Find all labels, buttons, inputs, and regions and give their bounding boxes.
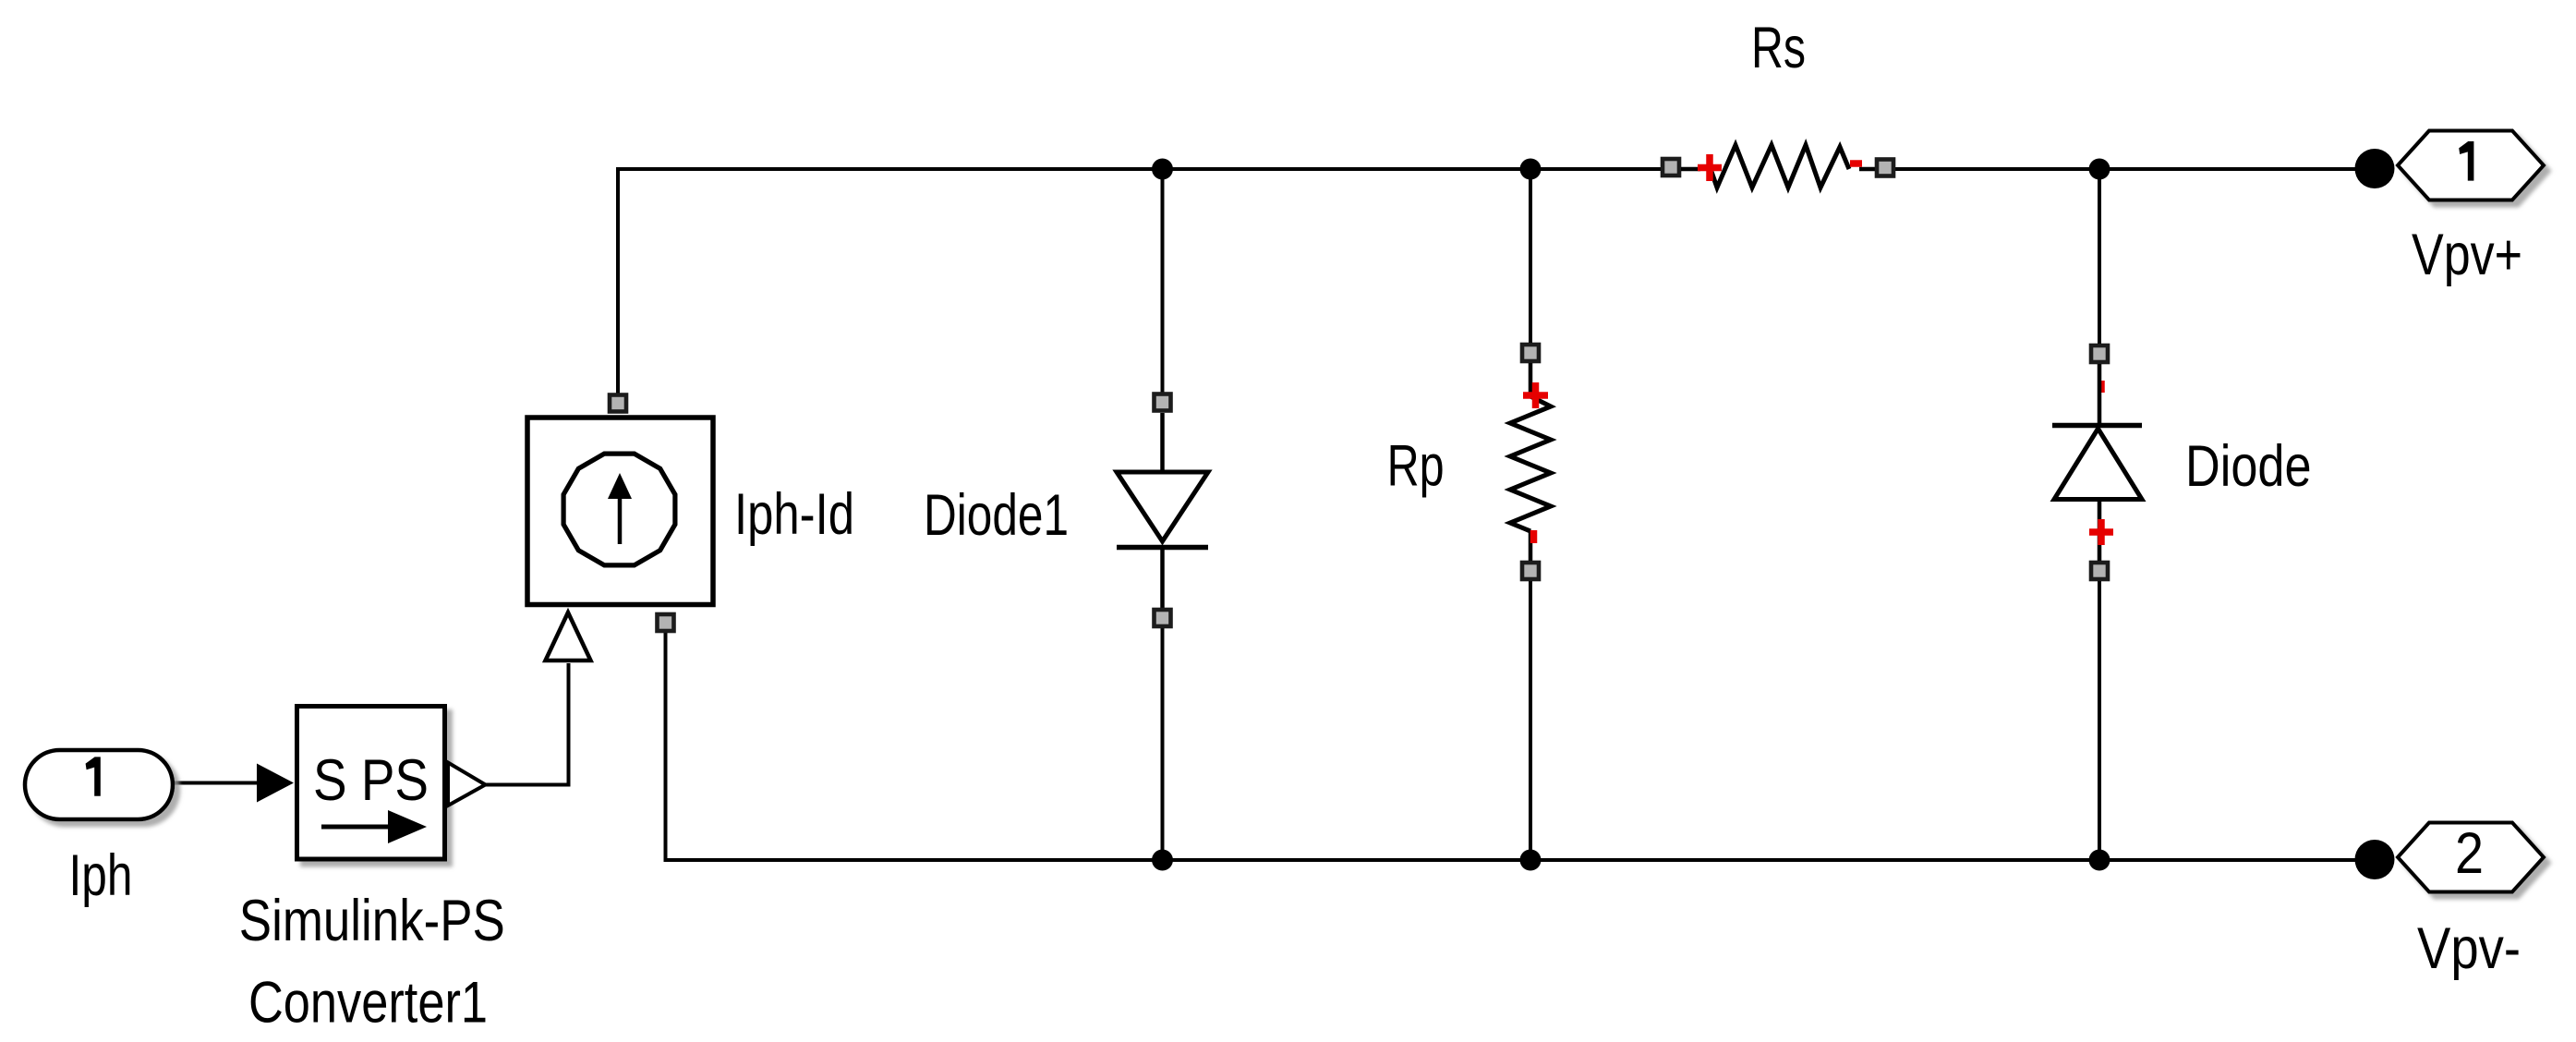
- resistor Rs polarity - mark (red): [1850, 160, 1862, 167]
- junction: bottom bus / Diode: [2089, 850, 2110, 871]
- wire: Rp top drop from top bus: [1529, 169, 1532, 345]
- junction: top bus / Diode: [2089, 159, 2110, 180]
- svg-text:Vpv-: Vpv-: [2417, 916, 2521, 981]
- diode D1 Diode1 bottom port: [1155, 610, 1171, 626]
- svg-text:Iph: Iph: [69, 843, 133, 908]
- junction: top bus / Diode1: [1152, 159, 1173, 180]
- diode D2 Diode symbol (lead, cathode bar, up triangle, lead): [2052, 364, 2142, 563]
- junction: top bus / Rp: [1520, 159, 1542, 180]
- wire: Diode bottom drop to bottom bus: [2098, 580, 2101, 860]
- junction: bottom bus / Diode1: [1152, 850, 1173, 871]
- wire: Simulink-PS Converter1 output to Iph-Id PS control port: [485, 663, 569, 785]
- input port block 1 (oval): [25, 750, 173, 819]
- resistor Rp polarity + mark (red): [1523, 382, 1548, 408]
- current source U1 Iph-Id block body: [527, 418, 713, 605]
- resistor Rs body (stub, zigzag, stub): [1681, 145, 1877, 188]
- resistor Rs right port: [1877, 160, 1893, 176]
- wire: Rp bottom drop to bottom bus: [1529, 580, 1532, 860]
- resistor Rp top port: [1522, 345, 1539, 361]
- svg-text:Diode: Diode: [2185, 434, 2312, 499]
- pin number 1 in Vpv+ hexagon: [2459, 141, 2473, 181]
- diode D1 Diode1 symbol (anode lead, triangle, cathode bar, lead): [1117, 413, 1208, 610]
- current source Iph-Id bottom-right port (electrical -): [658, 614, 674, 631]
- diode D2 Diode polarity - mark (red): [2098, 381, 2105, 393]
- svg-text:Converter1: Converter1: [248, 971, 488, 1036]
- wire: top bus right segment from Rs right port to Vpv+ node: [1893, 167, 2375, 171]
- svg-text:Rs: Rs: [1751, 16, 1806, 80]
- svg-text:2: 2: [2455, 821, 2484, 886]
- diode D1 Diode1 top port: [1155, 394, 1171, 411]
- block Simulink-PS Converter1 PS output port triangle: [448, 763, 486, 806]
- svg-text:Rp: Rp: [1387, 434, 1445, 499]
- resistor Rp body (lead, zigzag, lead): [1510, 363, 1551, 563]
- wire: Diode top drop from top bus: [2098, 169, 2101, 345]
- wire: Iph input port to converter: [174, 781, 260, 785]
- current source Iph-Id PS control input triangle: [546, 612, 591, 660]
- pin number 1 in input oval: [86, 757, 101, 795]
- wire: bottom bus from Iph-Id bottom port to Vpv- node: [666, 632, 2376, 860]
- svg-text:S PS: S PS: [313, 748, 429, 813]
- svg-text:Simulink-PS: Simulink-PS: [239, 889, 505, 953]
- block Simulink-PS Converter1 body: [297, 707, 445, 860]
- resistor Rp bottom port: [1522, 563, 1539, 579]
- resistor Rs left port: [1663, 159, 1679, 176]
- svg-text:Vpv+: Vpv+: [2412, 223, 2522, 287]
- wire: Diode1 cathode drop to bottom bus: [1161, 627, 1165, 860]
- diode D2 Diode top port: [2091, 345, 2108, 362]
- resistor Rs polarity + mark (red): [1698, 154, 1722, 181]
- current source Iph-Id top port (electrical +): [610, 395, 626, 412]
- resistor Rp polarity - mark (red): [1530, 530, 1538, 543]
- diode D2 Diode polarity + mark (red): [2089, 519, 2113, 545]
- svg-text:Diode1: Diode1: [924, 483, 1069, 548]
- diode D2 Diode bottom port: [2091, 563, 2108, 579]
- wire: Diode1 anode drop from top bus: [1161, 169, 1165, 394]
- wire: vertical + top bus left segment from Iph-Id top port to Rs left port: [618, 169, 1663, 394]
- node Vpv- connection dot: [2355, 840, 2395, 879]
- svg-text:Iph-Id: Iph-Id: [734, 482, 854, 547]
- output port block 1 Vpv+ (hexagon): [2398, 131, 2544, 200]
- junction: bottom bus / Rp: [1520, 850, 1542, 871]
- output port block 2 Vpv- (hexagon): [2398, 823, 2544, 892]
- node Vpv+ connection dot: [2355, 149, 2395, 188]
- arrowhead into Simulink-PS Converter1 input: [257, 764, 294, 803]
